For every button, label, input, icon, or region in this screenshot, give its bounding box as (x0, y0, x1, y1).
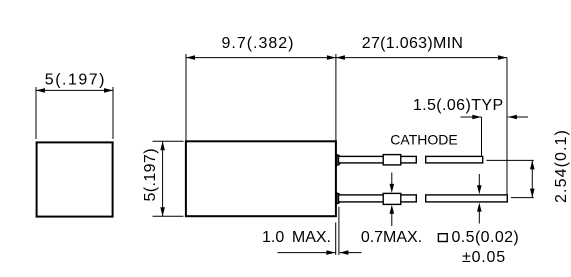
leader line 1.5 TYP left (461, 116, 482, 118)
anode lead bulge (383, 193, 401, 204)
extension line 2.54 top (487, 159, 534, 161)
svg-text:0.7MAX.: 0.7MAX. (361, 229, 422, 246)
arrow up side height dim (160, 141, 165, 150)
extension line body left top (185, 54, 187, 141)
svg-text:5(.197): 5(.197) (45, 71, 106, 88)
arrow left-pointing 1.5 TYP (508, 115, 517, 120)
arrow down side height dim (160, 207, 165, 216)
anode lead segment 1 (339, 195, 417, 202)
svg-text:1.0 MAX.: 1.0 MAX. (262, 229, 331, 246)
arrow left-pointing 1.0 MAX (339, 250, 348, 255)
arrow down 0.7 MAX (391, 173, 393, 191)
extension line left of front square (35, 87, 37, 139)
arrow up 0.5 square (478, 206, 480, 224)
arrow right front dim (104, 88, 113, 93)
cathode lead bulge (383, 155, 401, 165)
extension line 2.54 bottom (511, 197, 534, 199)
svg-text:5(.197): 5(.197) (142, 148, 159, 202)
arrow left front dim (36, 88, 45, 93)
anode lead segment 2 (426, 195, 508, 202)
front view square (LED front face) (37, 142, 113, 216)
extension line bottom for 5(.197) side (153, 215, 184, 217)
arrow down 2.54 (530, 189, 535, 198)
extension line body edge bottom (335, 222, 337, 255)
arrow left 27 dim (336, 55, 345, 60)
arrow up 2.54 (530, 160, 535, 169)
arrow up 0.7 MAX (391, 208, 393, 226)
svg-text:CATHODE: CATHODE (390, 132, 457, 148)
leader line 1.5 TYP right (508, 116, 528, 118)
side view body rectangle (186, 141, 336, 216)
extension line top for 5(.197) side (153, 140, 184, 142)
cathode lead seat bump (337, 155, 341, 165)
extension line lead tip right (506, 58, 508, 195)
svg-text:0.5(0.02): 0.5(0.02) (452, 229, 520, 246)
extension line seat edge bottom (338, 207, 340, 255)
svg-text:±0.05: ±0.05 (462, 249, 506, 266)
cathode lead segment 1 (339, 156, 417, 163)
svg-text:9.7(.382): 9.7(.382) (221, 35, 294, 52)
svg-text:2.54(0.1): 2.54(0.1) (553, 129, 570, 203)
svg-text:27(1.063)MIN: 27(1.063)MIN (362, 35, 463, 52)
arrow right 27 dim (498, 55, 507, 60)
dim line 5(.197) front view (36, 89, 113, 91)
svg-text:1.5(.06)TYP: 1.5(.06)TYP (413, 97, 504, 114)
dim line 2.54 (531, 160, 533, 197)
dim line 27 MIN (336, 57, 507, 59)
dim line vertical 5(.197) side (162, 141, 164, 216)
anode lead seat bump (337, 193, 341, 203)
dim line 9.7 (186, 57, 336, 59)
extension line cathode tip (481, 117, 483, 156)
leader line 1.0 MAX (278, 252, 336, 254)
extension line right of front square (112, 87, 114, 139)
extension line body right top (335, 54, 337, 141)
cathode lead segment 2 (426, 156, 483, 163)
arrow right-pointing 1.5 TYP (472, 115, 481, 120)
leader line right 1.0 MAX (339, 252, 361, 254)
arrow right 9.7 dim (327, 55, 336, 60)
square symbol for 0.5 dim (438, 234, 447, 242)
arrow left 9.7 dim (186, 55, 195, 60)
arrow right-pointing 1.0 MAX (326, 250, 335, 255)
arrow down 0.5 square (478, 174, 480, 192)
